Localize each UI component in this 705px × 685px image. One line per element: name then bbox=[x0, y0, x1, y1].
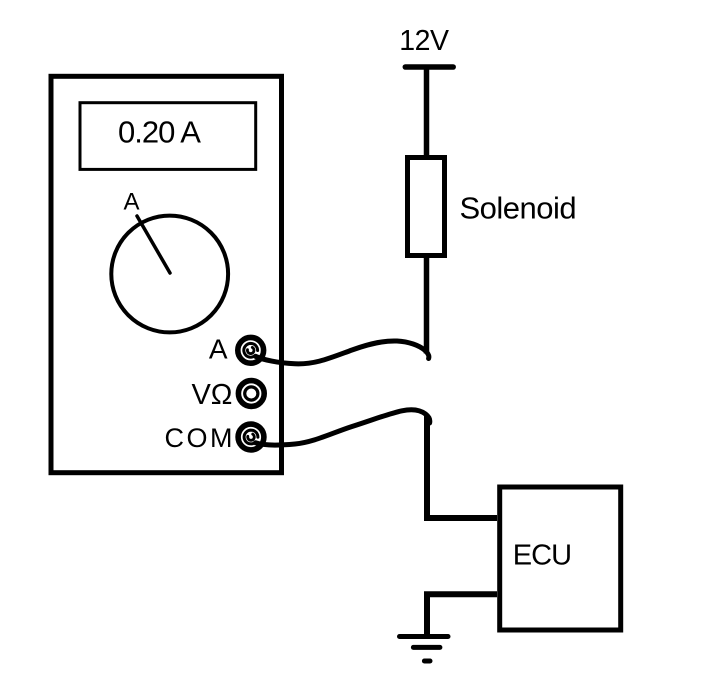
jack A bbox=[238, 337, 264, 363]
multimeter display bbox=[80, 103, 256, 170]
supply 12V rail bbox=[405, 64, 453, 70]
ground bbox=[400, 637, 449, 662]
wire: test lead from COM jack to ECU node bbox=[256, 410, 430, 445]
wire: test lead from A jack to solenoid node bbox=[256, 341, 429, 364]
svg-text:A: A bbox=[123, 189, 139, 216]
jack VΩ bbox=[238, 381, 264, 407]
wire: node to ECU input bbox=[427, 416, 497, 518]
dial pointer bbox=[137, 216, 170, 273]
svg-text:Solenoid: Solenoid bbox=[460, 191, 577, 226]
multimeter dial bbox=[111, 216, 228, 333]
svg-text:ECU: ECU bbox=[513, 539, 571, 571]
ECU U1 bbox=[500, 487, 621, 630]
svg-text:VΩ: VΩ bbox=[191, 379, 232, 411]
svg-text:0.20 A: 0.20 A bbox=[118, 114, 201, 149]
svg-text:12V: 12V bbox=[399, 25, 449, 57]
svg-text:COM: COM bbox=[165, 423, 236, 453]
wire: 12V rail to solenoid bbox=[424, 67, 430, 156]
wire: ECU to ground bbox=[427, 594, 497, 634]
solenoid L1 bbox=[408, 158, 445, 256]
svg-text:A: A bbox=[209, 334, 228, 365]
jack COM bbox=[238, 424, 264, 450]
wire: solenoid to node A-lead bbox=[424, 255, 430, 354]
multimeter M1 body bbox=[51, 76, 282, 472]
